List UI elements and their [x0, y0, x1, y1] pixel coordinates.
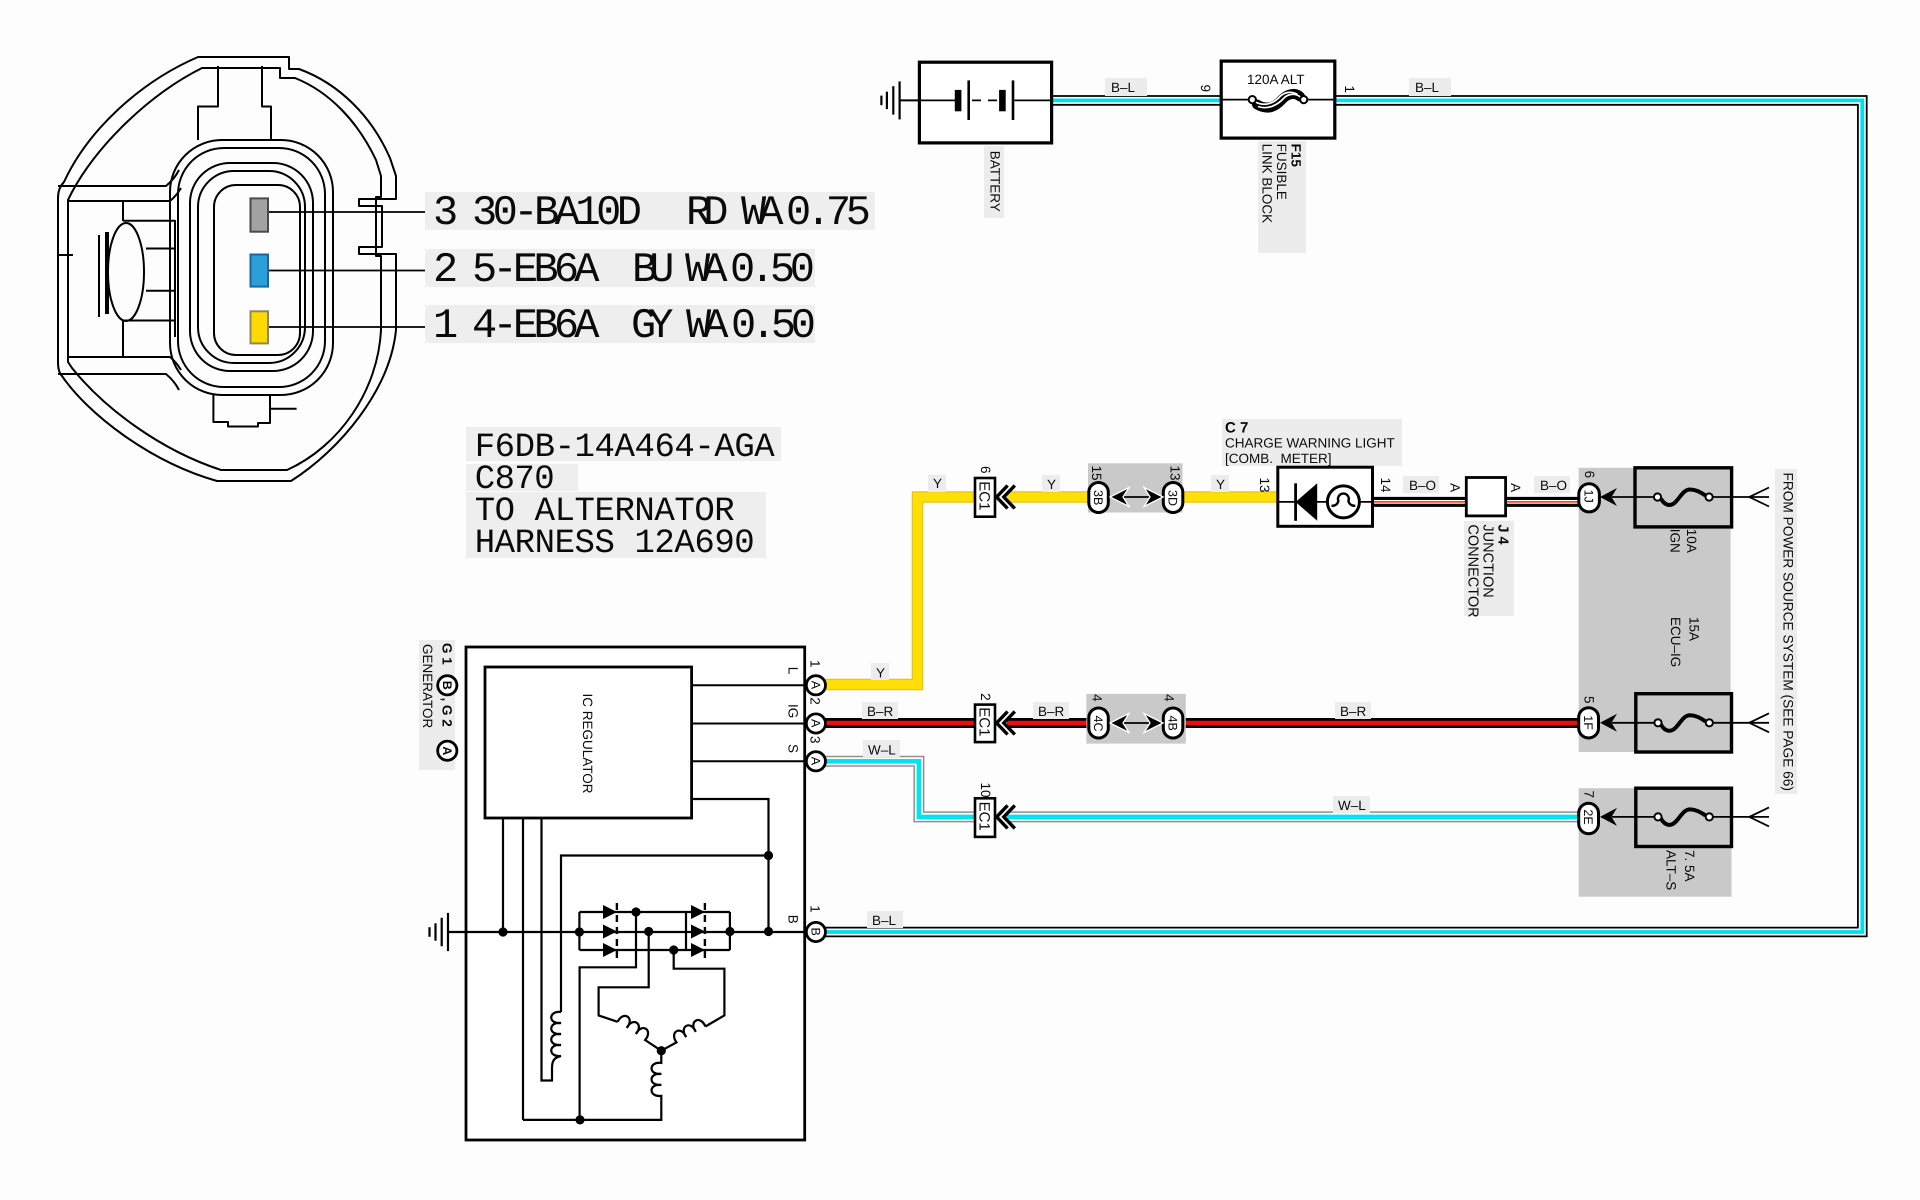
- svg-text:0.50: 0.50: [730, 246, 815, 294]
- svg-text:B–O: B–O: [1540, 478, 1567, 493]
- svg-text:B–R: B–R: [1038, 704, 1065, 719]
- svg-text:LINK BLOCK: LINK BLOCK: [1259, 144, 1274, 224]
- svg-text:Y: Y: [876, 666, 885, 681]
- svg-text:A: A: [1447, 483, 1462, 492]
- svg-text:10A: 10A: [1684, 529, 1699, 553]
- svg-text:4B: 4B: [1165, 716, 1179, 731]
- svg-text:B–R: B–R: [867, 704, 894, 719]
- svg-text:WA: WA: [685, 246, 728, 294]
- svg-text:B–L: B–L: [1111, 80, 1136, 95]
- svg-text:W–L: W–L: [1338, 798, 1366, 813]
- svg-text:B: B: [785, 915, 800, 924]
- svg-text:WA: WA: [686, 302, 729, 350]
- svg-text:1F: 1F: [1581, 715, 1595, 730]
- svg-text:EC1: EC1: [976, 802, 993, 831]
- svg-text:S: S: [785, 744, 800, 753]
- svg-text:, G 2: , G 2: [440, 698, 455, 727]
- svg-text:2: 2: [433, 246, 458, 294]
- svg-text:B: B: [440, 681, 454, 690]
- svg-text:IG: IG: [785, 704, 800, 718]
- svg-text:Y: Y: [933, 476, 942, 491]
- svg-text:3: 3: [433, 189, 458, 237]
- svg-text:G 1: G 1: [440, 643, 455, 665]
- svg-text:IC REGULATOR: IC REGULATOR: [580, 694, 595, 794]
- svg-text:EC1: EC1: [976, 707, 993, 736]
- svg-text:1: 1: [433, 302, 458, 350]
- svg-text:2E: 2E: [1581, 809, 1595, 824]
- svg-text:HARNESS 12A690: HARNESS 12A690: [475, 525, 755, 563]
- svg-text:5: 5: [1581, 696, 1596, 704]
- svg-text:CONNECTOR: CONNECTOR: [1465, 524, 1481, 617]
- svg-text:A: A: [808, 681, 822, 690]
- svg-text:JUNCTION: JUNCTION: [1480, 524, 1496, 597]
- svg-text:A: A: [440, 746, 454, 755]
- svg-text:RD: RD: [686, 189, 729, 237]
- svg-text:BU: BU: [632, 246, 675, 294]
- svg-text:1: 1: [1342, 85, 1357, 93]
- svg-text:15A: 15A: [1686, 617, 1701, 641]
- svg-text:6: 6: [1582, 471, 1597, 479]
- svg-text:F15: F15: [1288, 144, 1303, 168]
- svg-text:120A ALT: 120A ALT: [1247, 72, 1305, 87]
- svg-text:GENERATOR: GENERATOR: [420, 644, 435, 729]
- svg-text:A: A: [808, 757, 822, 766]
- svg-text:B–O: B–O: [1409, 478, 1436, 493]
- svg-text:13: 13: [1257, 478, 1272, 493]
- svg-text:Y: Y: [1047, 477, 1056, 492]
- svg-text:4C: 4C: [1091, 716, 1105, 732]
- svg-text:FROM POWER SOURCE SYSTEM (SEE: FROM POWER SOURCE SYSTEM (SEE PAGE 66): [1781, 473, 1796, 791]
- svg-text:4-EB6A: 4-EB6A: [472, 302, 600, 350]
- svg-text:L: L: [785, 667, 800, 675]
- svg-text:BATTERY: BATTERY: [987, 151, 1002, 212]
- svg-text:A: A: [808, 719, 822, 728]
- svg-text:EC1: EC1: [976, 481, 993, 510]
- svg-text:ALT–S: ALT–S: [1663, 850, 1678, 890]
- svg-text:FUSIBLE: FUSIBLE: [1274, 144, 1289, 200]
- svg-text:1: 1: [808, 905, 823, 913]
- svg-text:C 7: C 7: [1225, 420, 1248, 437]
- svg-text:J 4: J 4: [1495, 524, 1511, 544]
- svg-text:Y: Y: [1216, 477, 1225, 492]
- svg-text:9: 9: [1198, 85, 1213, 93]
- svg-text:1J: 1J: [1581, 490, 1595, 503]
- svg-text:4: 4: [1161, 694, 1176, 702]
- svg-text:ECU–IG: ECU–IG: [1668, 617, 1683, 667]
- svg-text:IGN: IGN: [1667, 529, 1682, 553]
- svg-text:4: 4: [1089, 694, 1104, 702]
- svg-text:W–L: W–L: [868, 743, 896, 758]
- svg-text:B–L: B–L: [872, 913, 897, 928]
- svg-text:5-EB6A: 5-EB6A: [472, 246, 600, 294]
- svg-text:A: A: [1508, 483, 1523, 492]
- svg-text:2: 2: [978, 693, 993, 701]
- svg-text:3: 3: [808, 736, 823, 744]
- svg-text:3B: 3B: [1091, 490, 1105, 505]
- svg-text:3D: 3D: [1165, 490, 1179, 506]
- svg-text:GY: GY: [631, 302, 674, 350]
- svg-text:[COMB. METER]: [COMB. METER]: [1225, 451, 1332, 466]
- svg-text:B–L: B–L: [1415, 80, 1440, 95]
- svg-text:0.50: 0.50: [731, 302, 816, 350]
- svg-text:15: 15: [1089, 466, 1104, 481]
- svg-text:6: 6: [978, 466, 993, 474]
- svg-text:14: 14: [1378, 478, 1393, 494]
- svg-text:10: 10: [978, 783, 993, 798]
- svg-text:WA: WA: [741, 189, 784, 237]
- svg-text:B: B: [808, 928, 822, 936]
- svg-text:B–R: B–R: [1340, 704, 1367, 719]
- svg-text:7: 7: [1581, 791, 1596, 799]
- svg-text:1: 1: [808, 660, 823, 668]
- svg-text:2: 2: [808, 697, 823, 705]
- svg-text:7. 5A: 7. 5A: [1682, 850, 1697, 882]
- svg-text:30-BA10D: 30-BA10D: [472, 189, 642, 237]
- svg-text:0.75: 0.75: [786, 189, 871, 237]
- svg-text:CHARGE WARNING LIGHT: CHARGE WARNING LIGHT: [1225, 436, 1395, 451]
- svg-text:13: 13: [1167, 466, 1182, 481]
